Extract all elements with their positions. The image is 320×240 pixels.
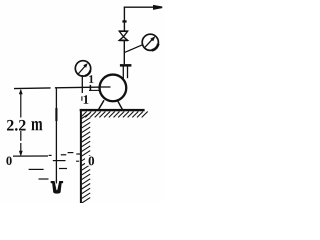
dimension arrow down (19, 151, 23, 157)
gauge stem (81, 75, 83, 93)
wire: suction pipe horizontal run (14, 87, 51, 90)
flange tick at pump inlet (89, 85, 91, 91)
wire: discharge run to the right (124, 6, 161, 8)
tick below suction line at gauge stem (81, 96, 83, 101)
wall face line (80, 109, 82, 203)
ground surface line (80, 109, 145, 111)
wire: pipe above valve (123, 7, 125, 31)
wire: vertical suction pipe into well (55, 88, 57, 182)
wall hatching (82, 113, 91, 203)
wire: discharge pipe up to valve (123, 41, 125, 65)
label 2.2 m (7, 120, 26, 131)
ground hatching (81, 112, 148, 118)
water surface dashes (53, 160, 66, 162)
node 1 (label above suction line) (89, 75, 93, 83)
pump U1 casing (100, 75, 127, 102)
node 0 (left label) (6, 157, 11, 166)
discharge flange (120, 64, 131, 67)
valve V1 (gate valve) (119, 31, 128, 40)
small flange above valve (122, 20, 126, 22)
dimension arrow up (19, 89, 23, 95)
wire: gauge connector diagonal (124, 44, 144, 53)
foot valve strainer (51, 180, 63, 194)
pump mount left leg (99, 100, 104, 109)
water level line 0-0 (13, 155, 48, 157)
flange segment on suction pipe (55, 108, 57, 121)
node 1 (label below suction line) (84, 95, 89, 104)
pump mount right leg (117, 100, 122, 109)
wire: suction nozzle lower wall near pump (89, 89, 100, 91)
pressure gauge P2 (discharge) (142, 34, 158, 50)
dimension line 2.2 m (20, 94, 22, 151)
vacuum gauge P1 (suction) (75, 61, 90, 76)
wire: suction line into pump center (99, 86, 111, 88)
flow arrow at discharge outlet (153, 5, 162, 10)
node 0 (right label) (85, 156, 96, 166)
discharge pipe double wall (122, 67, 124, 80)
